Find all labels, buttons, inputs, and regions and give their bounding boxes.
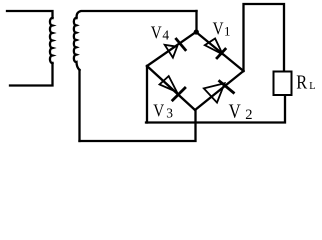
diode V3 [160, 76, 186, 101]
svg-text:2: 2 [245, 107, 252, 123]
wire secondary bottom horizontal [80, 110, 196, 141]
diode V4 [165, 38, 187, 58]
svg-text:R: R [296, 71, 307, 93]
wire secondary bottom vertical [78, 70, 80, 141]
svg-text:1: 1 [224, 23, 231, 38]
diode V2 [204, 80, 235, 102]
svg-text:V: V [153, 100, 164, 121]
svg-text:3: 3 [166, 105, 173, 120]
wire top vertex drop [195, 11, 197, 32]
transformer primary winding [50, 18, 53, 63]
wire bridge edge bottom-left [147, 66, 195, 110]
wire bridge edge top-left [147, 32, 196, 66]
wire bottom rail to load [146, 96, 285, 123]
svg-text:4: 4 [162, 28, 169, 43]
wire bridge edge top-right [196, 32, 244, 71]
transformer secondary winding [74, 18, 80, 70]
wire primary bottom [10, 63, 53, 86]
svg-text:V: V [213, 18, 224, 39]
resistor RL [274, 72, 292, 96]
svg-text:V: V [229, 100, 241, 121]
diode V1 [205, 39, 226, 59]
wire secondary top [77, 11, 197, 18]
svg-text:V: V [151, 22, 162, 43]
wire left vertex to bottom rail [146, 66, 148, 123]
wire primary top [7, 11, 53, 18]
wire bridge edge bottom-right [195, 71, 244, 110]
svg-text:L: L [309, 81, 315, 92]
wire right vertex loop to load top [244, 4, 285, 71]
junction top vertex [194, 29, 199, 34]
